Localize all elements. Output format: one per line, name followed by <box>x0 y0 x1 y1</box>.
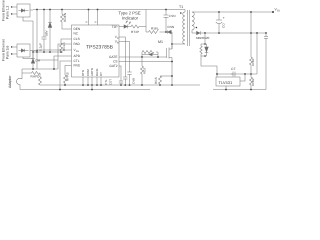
diode D_A adapter <box>31 52 35 69</box>
IC bottom pin RTN <box>82 77 84 85</box>
node dots VSS rail <box>32 50 62 53</box>
IC U1 TPS23785B body <box>72 25 120 77</box>
svg-text:MBR0520: MBR0520 <box>196 36 210 40</box>
resistor R_FRS <box>64 72 67 85</box>
svg-text:Pairs 1,2: Pairs 1,2 <box>6 6 10 19</box>
wire APD node line <box>22 68 58 70</box>
svg-text:RTN: RTN <box>81 70 85 76</box>
wire snubber riser <box>145 10 147 33</box>
svg-text:R FB2: R FB2 <box>251 78 255 86</box>
svg-text:R GS: R GS <box>143 68 147 74</box>
node dot snubber <box>165 31 167 33</box>
wire TLV431 anode <box>225 86 227 90</box>
svg-text:58V: 58V <box>45 30 49 36</box>
capacitor C_VC <box>123 77 127 85</box>
LED D_T2P <box>124 20 131 28</box>
node dots feedback <box>216 73 252 75</box>
svg-text:APD: APD <box>74 54 81 58</box>
svg-text:TPS23785B: TPS23785B <box>86 45 114 51</box>
capacitor C_F <box>231 72 235 77</box>
resistor R_CLS <box>60 39 72 52</box>
capacitor C_IN 0.1uF <box>42 10 47 53</box>
svg-text:R T2P: R T2P <box>131 30 139 34</box>
svg-text:DT: DT <box>99 72 103 76</box>
node dots output return <box>204 32 267 34</box>
wire VSS rail <box>33 51 63 53</box>
svg-text:T2P: T2P <box>112 25 118 29</box>
svg-text:+: + <box>223 16 225 20</box>
svg-text:C O: C O <box>222 23 226 28</box>
svg-text:V: V <box>85 21 89 23</box>
svg-text:CS: CS <box>113 60 117 64</box>
svg-text:R SN: R SN <box>151 26 158 30</box>
svg-text:PAD: PAD <box>74 42 81 46</box>
svg-text:OUT: OUT <box>277 10 280 13</box>
capacitor C_VB <box>127 72 131 85</box>
wire top input rail <box>30 9 185 12</box>
wire BR1 minus <box>23 17 33 21</box>
svg-text:R FB1: R FB1 <box>251 58 255 66</box>
node dots gate <box>141 56 159 58</box>
svg-text:M1: M1 <box>158 40 163 44</box>
T1 polarity dots <box>180 12 197 28</box>
label From Ethernet Pairs 1,2 <box>2 0 10 21</box>
wire switch node <box>171 32 173 49</box>
label From Ethernet Pairs 3,6 <box>2 39 10 61</box>
svg-text:NC: NC <box>74 32 79 36</box>
wire feedback right riser <box>256 33 258 74</box>
resistor R_GS <box>141 57 144 85</box>
node dots rails <box>59 84 173 90</box>
shunt reg U2 TLV431 <box>216 77 240 86</box>
bridge rectifier BR2 <box>17 44 30 57</box>
wire VSS tie column <box>36 10 38 53</box>
svg-text:C VB: C VB <box>132 78 136 84</box>
diode D_SN <box>167 30 172 34</box>
wire VSS to APD riser <box>36 52 38 69</box>
IC bottom pin BLNK <box>96 77 98 85</box>
svg-text:GAT2: GAT2 <box>109 64 117 68</box>
wire output return <box>192 32 266 34</box>
svg-text:DEN: DEN <box>74 27 81 31</box>
resistor R_CS <box>159 76 173 85</box>
node dots APD line <box>32 68 55 70</box>
node dots secondary return <box>225 89 252 91</box>
wire CS <box>119 61 172 63</box>
capacitor C_GAT2 <box>119 81 123 85</box>
svg-text:R APD: R APD <box>31 75 41 79</box>
svg-text:Indicator: Indicator <box>122 16 139 21</box>
transistor M1 <box>167 44 173 85</box>
svg-text:D A: D A <box>36 59 41 63</box>
capacitor C_SN <box>164 10 169 33</box>
svg-text:CLS: CLS <box>74 37 80 41</box>
svg-text:R DEN: R DEN <box>63 13 67 22</box>
IC U1 bottom pin labels <box>81 68 103 76</box>
node dot Rcs top <box>171 75 173 77</box>
wire bridge minus bus <box>32 21 34 59</box>
wire FRS pin <box>65 66 72 73</box>
wire TLV431 ref <box>240 74 245 81</box>
IC top pin VDD1 <box>97 10 99 26</box>
resistor R_APD <box>22 72 40 75</box>
wire primary bottom <box>172 43 185 45</box>
wire opto to TLV431 <box>201 56 217 77</box>
IC bottom pin ARTN <box>91 77 93 90</box>
wire T2P pin <box>119 26 126 28</box>
node dots top rail <box>36 9 167 11</box>
svg-text:C TL: C TL <box>104 79 108 85</box>
svg-text:Adapter: Adapter <box>8 75 12 88</box>
wire VDD pin <box>37 49 72 51</box>
adapter jack J1 <box>16 69 22 90</box>
IC top pin VDD <box>88 10 90 26</box>
wire GATE <box>119 56 167 58</box>
wire secondary return rail <box>213 89 266 91</box>
connector pins pairs 3,6 <box>11 46 17 54</box>
node dot R_GS <box>141 84 143 86</box>
resistor R_G <box>142 51 158 58</box>
svg-text:FRS: FRS <box>74 64 80 68</box>
bridge rectifier BR1 <box>17 4 30 17</box>
optocoupler LED branch <box>201 33 207 56</box>
diode D_OUT MBR0520 <box>197 31 201 34</box>
svg-text:GATE: GATE <box>109 55 117 59</box>
svg-text:TLV431: TLV431 <box>219 80 233 85</box>
wire CTL pin <box>60 61 72 90</box>
svg-text:ARTN: ARTN <box>90 68 94 76</box>
resistor R_FB1 <box>250 57 253 74</box>
svg-text:C DT: C DT <box>109 79 113 85</box>
svg-text:C F: C F <box>231 67 236 71</box>
wire NPD pin <box>54 56 72 69</box>
divider column <box>250 12 252 57</box>
resistor R_APD2 <box>39 73 42 85</box>
node dots output rail <box>218 11 274 13</box>
wire RTN rail <box>40 84 200 86</box>
IC U1 pin labels <box>74 27 81 67</box>
node dot switch <box>171 43 173 45</box>
svg-text:C: C <box>117 37 119 40</box>
node dot CS-source <box>171 61 173 63</box>
wire BR2 minus jog <box>23 57 33 59</box>
wire ARTN rail <box>20 89 150 91</box>
capacitor C_OUT2 <box>264 33 268 90</box>
transformer T1 core <box>187 10 189 46</box>
wire GAT2 <box>119 66 121 81</box>
svg-text:Pairs 3,6: Pairs 3,6 <box>6 46 10 59</box>
resistor R_T2P <box>128 25 146 28</box>
svg-text:B: B <box>117 42 119 45</box>
svg-text:D SN: D SN <box>168 25 175 29</box>
connector pins pairs 1,2 <box>11 6 17 14</box>
wire output top rail <box>192 11 274 13</box>
IC U1 top pin labels <box>85 21 98 23</box>
IC bottom pin DT <box>100 77 102 85</box>
svg-text:R CS: R CS <box>154 77 158 84</box>
svg-text:V: V <box>94 21 98 23</box>
svg-text:CTL: CTL <box>74 59 80 63</box>
resistor R_DEN <box>61 10 72 30</box>
svg-text:R FRS: R FRS <box>65 72 69 81</box>
wire feedback line <box>217 73 257 75</box>
wire APD pin <box>58 44 72 69</box>
transformer T1 secondary <box>192 12 194 33</box>
label Type 2 PSE Indicator <box>119 11 141 21</box>
svg-text:T1: T1 <box>179 5 183 9</box>
svg-text:SS: SS <box>76 50 80 53</box>
transformer T1 primary <box>183 10 185 45</box>
wire BR2 plus to top rail <box>30 50 37 52</box>
zener D_TVS 58V <box>48 10 52 53</box>
resistor R_SN <box>146 29 166 34</box>
opto LED <box>205 44 209 56</box>
node dots opto <box>204 43 206 57</box>
IC bottom pin COM <box>87 77 89 85</box>
svg-text:C SN: C SN <box>169 14 176 18</box>
wire VB <box>119 42 130 73</box>
resistor R_FB2 <box>250 74 253 90</box>
wire VC <box>119 37 125 77</box>
capacitor C_OUT <box>216 12 222 33</box>
resistor R_BIAS <box>200 44 202 56</box>
